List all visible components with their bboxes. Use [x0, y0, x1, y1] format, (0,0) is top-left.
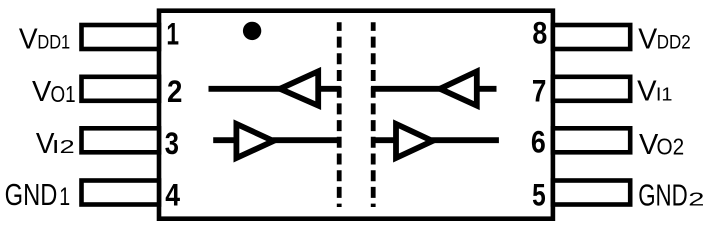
svg-text:V: V: [637, 75, 657, 107]
svg-text:GND: GND: [5, 177, 58, 212]
label VI2: [36, 128, 75, 160]
pin 8 lead: [553, 25, 630, 49]
svg-text:2: 2: [688, 189, 704, 210]
buffer B2 output side (points right): [396, 124, 433, 158]
svg-text:3: 3: [165, 125, 179, 161]
wire: buffer A1 input stub to barrier: [318, 86, 341, 92]
pin 7 lead: [553, 77, 630, 101]
IC body U1: [159, 11, 553, 219]
pin 3 lead: [82, 128, 160, 152]
svg-text:GND: GND: [638, 178, 688, 213]
svg-text:I1: I1: [656, 83, 673, 104]
svg-text:2: 2: [167, 73, 182, 109]
label GND2: [638, 178, 704, 213]
label VO2: [639, 129, 684, 161]
wire: barrier to buffer A2 apex: [371, 86, 441, 92]
svg-text:8: 8: [532, 15, 547, 51]
svg-text:V: V: [19, 23, 38, 55]
svg-text:1: 1: [166, 16, 179, 52]
svg-text:1: 1: [59, 184, 70, 211]
wire: buffer B1 output to barrier: [273, 137, 342, 143]
pin 4 lead: [82, 181, 160, 205]
svg-text:V: V: [32, 76, 52, 108]
wire: buffer B2 output to pin 6 side: [432, 137, 499, 143]
svg-text:4: 4: [165, 177, 180, 213]
wire: channel 1 output to pin 2: [209, 86, 282, 92]
wire: pin 3 to buffer B1 input: [213, 137, 237, 143]
label VDD1: [19, 23, 70, 55]
svg-text:O1: O1: [50, 81, 75, 107]
pin 2 lead: [82, 77, 160, 101]
pin 5 lead: [553, 181, 630, 205]
buffer A1 output side (points left): [280, 71, 318, 105]
buffer B1 input side (points right): [236, 124, 273, 158]
pin 1 lead: [82, 25, 160, 49]
svg-text:V: V: [638, 23, 658, 55]
wire: buffer A2 input stub from pin 7 side: [476, 86, 497, 92]
isolation barrier dashed line right: [371, 22, 376, 207]
pin 1 marker dot: [243, 22, 261, 40]
wire: barrier to buffer B2 input: [371, 137, 397, 143]
isolation barrier dashed line left: [337, 22, 342, 207]
label GND1: [5, 177, 70, 212]
svg-text:DD2: DD2: [657, 31, 691, 53]
label VO1: [32, 76, 76, 108]
label VI1: [637, 75, 672, 107]
svg-text:I2: I2: [52, 136, 75, 157]
svg-text:7: 7: [532, 73, 547, 109]
pin 6 lead: [553, 128, 630, 152]
svg-text:O2: O2: [657, 134, 685, 160]
buffer A2 input side (points left): [440, 71, 477, 105]
svg-text:DD1: DD1: [37, 31, 70, 53]
svg-text:5: 5: [532, 176, 546, 212]
label VDD2: [638, 23, 690, 55]
svg-text:6: 6: [531, 124, 546, 160]
